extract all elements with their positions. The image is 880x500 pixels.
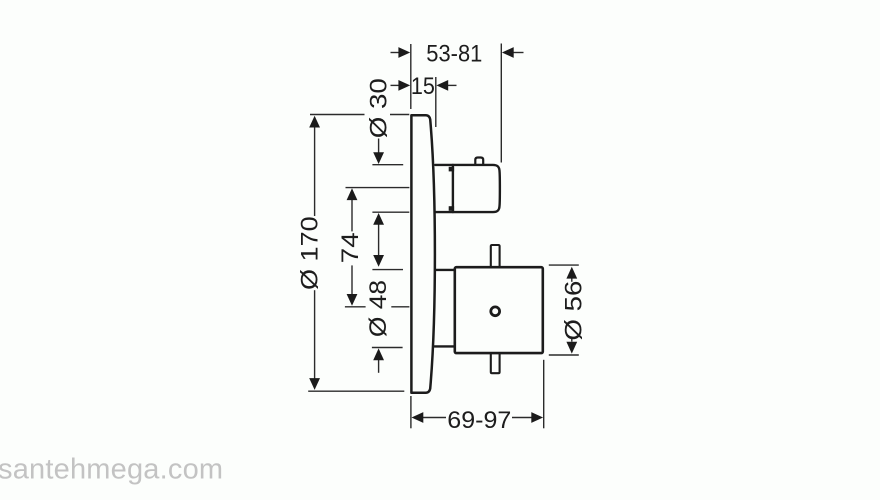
volume handle square body xyxy=(455,267,543,353)
dim O56 top arrow stub xyxy=(571,278,573,282)
volume handle bottom tab xyxy=(491,354,500,373)
svg-text:Ø 48: Ø 48 xyxy=(365,280,392,337)
svg-text:Ø 56: Ø 56 xyxy=(561,281,588,341)
thermostat handle neck bottom line xyxy=(435,211,453,213)
escutcheon plate (side view) xyxy=(411,115,435,392)
dim 15 right arrowhead xyxy=(436,80,448,91)
dim 74 line lower segment xyxy=(351,265,353,294)
dim 74 top extension line xyxy=(346,187,410,189)
dim O30 tail line xyxy=(378,139,380,155)
dim O30/O48 shared tail line xyxy=(378,224,380,256)
dim 69-97 right extension line xyxy=(543,360,545,429)
dim O48 up arrowhead xyxy=(373,348,384,360)
dim 74 line upper segment xyxy=(351,199,353,232)
volume handle top tab xyxy=(491,245,500,266)
dim O48 extension line neck bottom xyxy=(372,347,403,349)
dim 74 up arrowhead xyxy=(347,188,358,200)
dim 74 bottom extension line right of text xyxy=(391,306,409,308)
thermostat handle body xyxy=(453,165,500,212)
dim O170 line lower segment xyxy=(314,290,316,378)
thermostat handle neck top line xyxy=(435,164,453,166)
thermostat handle grip tab xyxy=(475,158,483,164)
svg-text:Ø 30: Ø 30 xyxy=(365,78,392,138)
dim O56 bottom extension line xyxy=(549,354,579,356)
dim 74 down arrowhead xyxy=(347,294,358,306)
dim 53-81 right extension line xyxy=(500,44,502,163)
dim 69-97 left arrowhead xyxy=(412,412,424,423)
svg-text:69-97: 69-97 xyxy=(447,407,511,434)
dim O30 extension line knob top xyxy=(372,164,403,166)
dim 69-97 line right segment xyxy=(512,417,532,419)
dim 69-97 line left segment xyxy=(423,417,447,419)
dim 53-81 left arrowhead xyxy=(398,47,410,58)
svg-text:Ø 170: Ø 170 xyxy=(296,216,323,290)
dim O48 extension line neck top xyxy=(372,269,403,271)
svg-text:53-81: 53-81 xyxy=(426,40,482,67)
svg-text:74: 74 xyxy=(337,232,364,263)
dim O48 bottom tail line xyxy=(378,359,380,372)
dim O170 top extension right of text xyxy=(390,114,409,116)
volume handle neck bottom line xyxy=(434,345,454,347)
dim 69-97 right arrowhead xyxy=(531,412,543,423)
svg-text:santehmega.com: santehmega.com xyxy=(0,453,223,485)
dim 15 left arrowhead xyxy=(398,80,410,91)
volume handle center ring xyxy=(491,307,500,316)
dim O170 up arrowhead xyxy=(309,116,320,128)
dim O170 line upper segment xyxy=(314,127,316,216)
dim 53-81 right arrow tail xyxy=(513,52,524,54)
svg-text:15: 15 xyxy=(411,73,435,100)
dim 53-81 right arrowhead xyxy=(502,47,514,58)
dim 15 left arrow tail xyxy=(391,84,401,86)
arrowheads xyxy=(309,47,577,423)
dim O56 top extension line xyxy=(549,264,579,266)
volume handle neck top line xyxy=(436,269,455,271)
dim O170 top extension left of text xyxy=(310,114,365,116)
dim O48 down arrowhead xyxy=(373,255,384,267)
dim O170 bottom extension line xyxy=(308,390,404,392)
dim O56 up arrowhead xyxy=(566,267,577,279)
dim O30 extension line knob bottom xyxy=(372,211,409,213)
dim 15 right arrow tail xyxy=(447,84,457,86)
dim O170 down arrowhead xyxy=(309,378,320,390)
dim O56 bottom arrow stub xyxy=(571,339,573,342)
dim 53-81 left arrow tail xyxy=(391,52,401,54)
dim O30 up arrowhead xyxy=(373,213,384,225)
dim 69-97 left extension line xyxy=(410,396,412,428)
thermostat handle notch marks xyxy=(449,167,454,211)
dim O30 down arrowhead xyxy=(373,152,384,164)
dim O56 down arrowhead xyxy=(566,342,577,354)
dim 74 bottom extension line left of text xyxy=(345,306,366,308)
dim 15 right extension line xyxy=(435,77,437,127)
dim 53-81 left extension line xyxy=(410,44,412,109)
